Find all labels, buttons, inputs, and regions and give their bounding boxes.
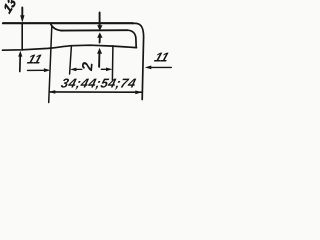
inner boss top edge (61, 29, 128, 31)
svg-text:34;44;54;74: 34;44;54;74 (59, 76, 138, 91)
outer left edge (21, 23, 23, 50)
center dim lower tail (98, 53, 100, 66)
outer top edge (3, 22, 133, 24)
arrowhead right (bottom dim) (135, 90, 142, 94)
arrowhead left (bottom dim) (49, 90, 56, 94)
dim 13 arrow shaft (top-left, pointing down) (21, 8, 23, 17)
arrowhead left (dim 11 right) (145, 66, 152, 70)
short vertical V4 (70, 46, 72, 74)
short vertical V6 (111, 46, 114, 80)
arrowhead up (center, below inner edge) (97, 32, 102, 37)
dim 2 right segment (101, 68, 107, 70)
arrowhead right (dim 2 right) (106, 68, 113, 72)
dim 2 left segment (75, 68, 82, 70)
arrowhead right (dim 11 left) (44, 68, 50, 72)
center dim shaft above (99, 13, 101, 27)
arrowhead up (dim 13 bottom partner) (18, 51, 22, 57)
arrowhead up (center, below middle line) (97, 48, 102, 54)
arrowhead left (dim 2 left) (70, 68, 77, 72)
outer top-right corner and right edge (132, 23, 144, 99)
center dim tail between heads (99, 37, 101, 42)
extension line V3 (left, slanted) (49, 27, 52, 103)
arrowhead down (center, tip on inner edge) (97, 25, 102, 30)
dim 13 lower partner arrow tail (up arrow) (19, 57, 21, 72)
inner boss top-left corner arc (51, 24, 61, 30)
middle horizontal surface line (3, 45, 137, 50)
bottom dimension line 34;44;54;74 (50, 91, 142, 93)
dim 11 right line (151, 66, 172, 68)
dim 11 left line (28, 69, 46, 71)
arrowhead down (dim 13 top) (20, 15, 24, 22)
inner boss top-right corner and right edge (128, 30, 137, 47)
